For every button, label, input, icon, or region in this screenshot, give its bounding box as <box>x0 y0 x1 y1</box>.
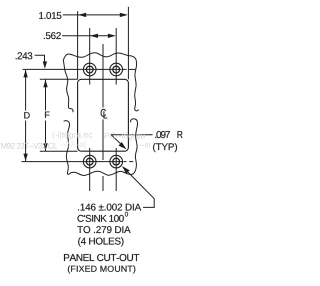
arrow F bottom down <box>43 143 47 151</box>
panel outline wavy upper-left <box>63 61 73 113</box>
arrow D top up <box>23 70 27 78</box>
wire .243 leader <box>35 55 45 62</box>
text '.243' <box>16 52 33 59</box>
hole bottom-left <box>83 155 96 168</box>
text '(4 HOLES)' <box>78 237 123 246</box>
text '--in' <box>139 142 150 148</box>
arrow F top up <box>43 80 47 88</box>
hole top-right <box>110 63 123 76</box>
text '1' <box>39 12 61 19</box>
arrow .562 right <box>108 34 116 38</box>
text 'M92 23T--V32 CL' <box>1 143 57 149</box>
arrow 1.015 left <box>78 13 86 17</box>
text 'R' <box>178 131 183 138</box>
text '0' <box>125 212 128 217</box>
arrow D bottom down <box>23 154 27 162</box>
text '(TYP)' <box>153 143 177 152</box>
hole top-left <box>83 63 96 76</box>
arrow 1.015 right <box>120 13 128 17</box>
arrow .243 down <box>43 61 47 68</box>
wire ext line left x77.6 (rect left edge extension) <box>77 11 79 79</box>
text "C'SINK 100" <box>78 215 124 222</box>
text '--27--a|' <box>60 141 85 149</box>
wire D dimension line x25.6 <box>25 70 27 111</box>
text '.146 ±.002 DIA' <box>78 204 141 211</box>
hole bottom-right <box>110 155 123 168</box>
arrowheads <box>23 13 129 174</box>
wire .097R leader <box>111 135 152 149</box>
wire F dimension line x45.5 <box>45 80 47 111</box>
cutout rectangle <box>78 79 129 151</box>
arrow .097R at corner <box>119 142 127 149</box>
wire F bottom extension y151.3 <box>40 150 78 152</box>
wire F top extension y79.3 <box>40 78 78 80</box>
wire ext line right x128.4 (rect right edge extension) <box>127 7 129 80</box>
text '(FIXED MOUNT)' <box>68 265 135 273</box>
arrow .146 at hole <box>122 166 130 174</box>
text 'PANEL CUT-OUT' <box>64 254 139 261</box>
panel outline wavy top and upper-right <box>63 53 138 111</box>
wire main vertical centerline x103 <box>102 44 104 108</box>
text 'D' <box>24 112 29 118</box>
text '.097' <box>155 131 170 138</box>
wire bottom hole vertical centerlines <box>89 148 91 191</box>
wire dim 1.015 line <box>63 14 121 16</box>
wire ext top hole centerline left x89.7 <box>89 28 91 85</box>
wire .146 note leader <box>124 168 155 208</box>
text '.562' <box>44 32 61 39</box>
wire top hole row centerline y69.5 <box>23 68 122 70</box>
panel outline wavy lower-right, bottom and lower-left <box>64 119 138 176</box>
wire ext top hole centerline right x116.2 <box>115 28 117 85</box>
arrow .562 left <box>90 34 98 38</box>
wire bottom hole row centerline y161.6 <box>22 161 123 163</box>
text '(-i|tegra.ec' <box>53 131 93 139</box>
text 'PC--irigrau' <box>105 132 145 140</box>
text 'TO .279 DIA' <box>77 226 130 233</box>
text 'C' <box>101 109 106 117</box>
text 'F' <box>45 112 50 118</box>
text 'L' <box>104 111 108 118</box>
wire dim .562 line <box>62 35 108 37</box>
